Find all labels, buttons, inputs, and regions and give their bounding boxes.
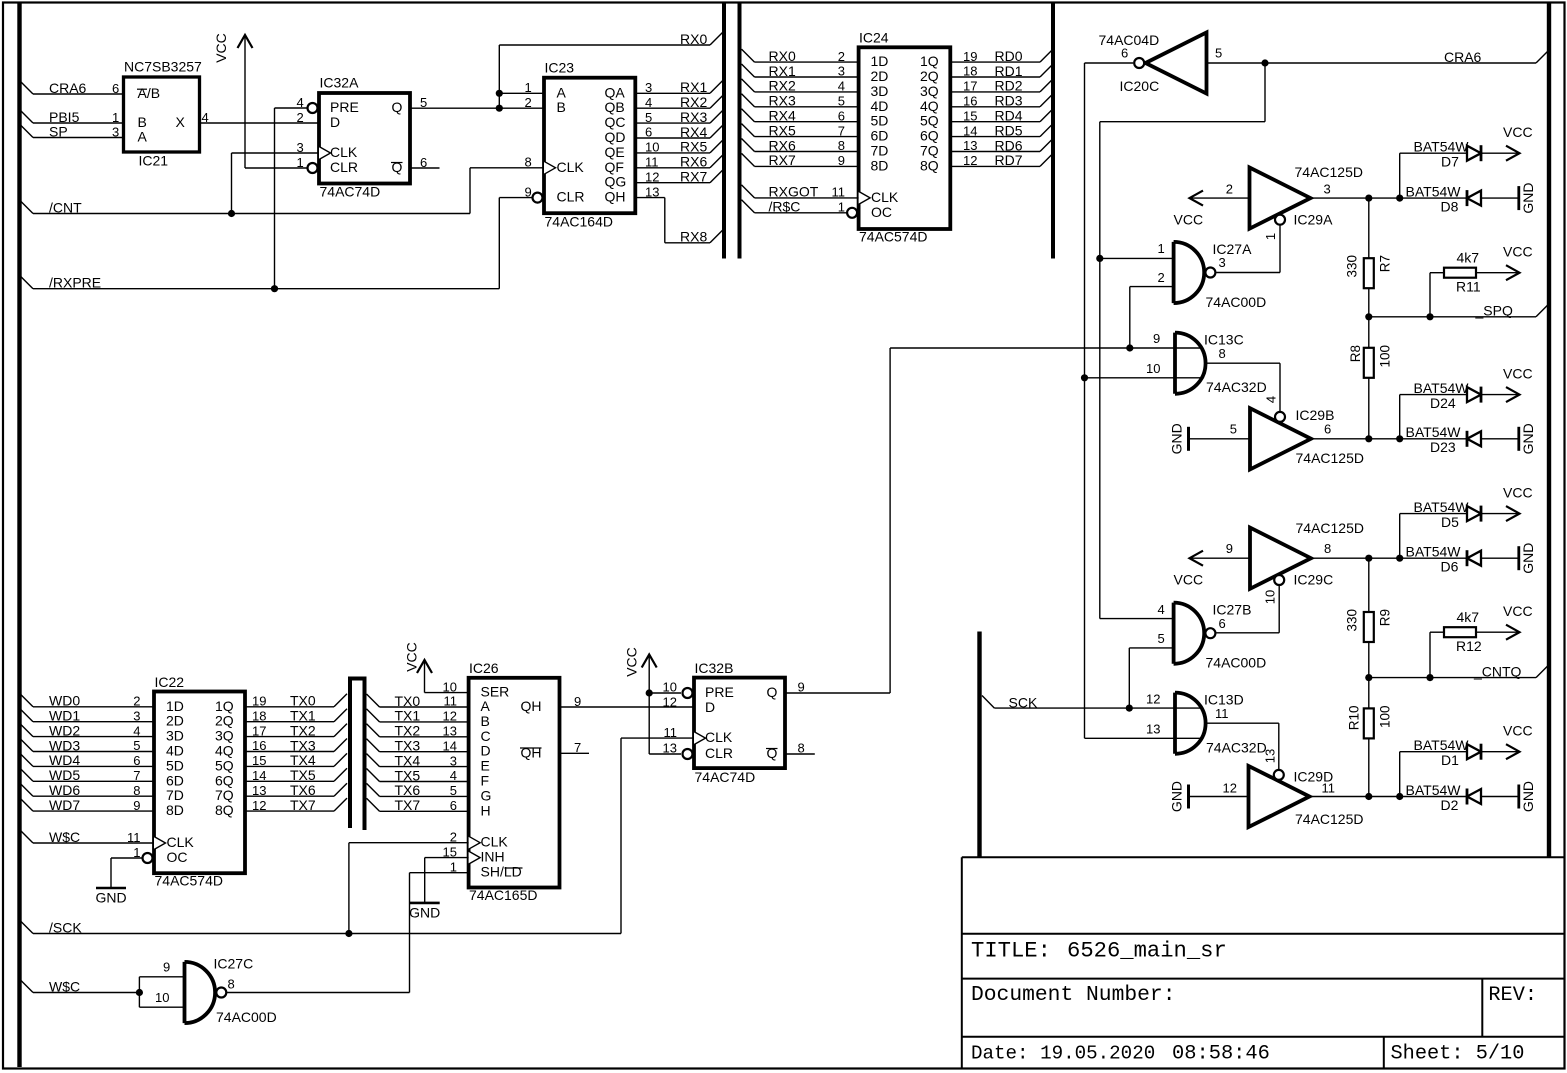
wire IC26.INH to GND: [425, 857, 469, 859]
wire D5 to VCC: [1481, 513, 1519, 515]
svg-text:CRA6: CRA6: [49, 80, 87, 96]
svg-text:_CNTQ: _CNTQ: [1473, 663, 1522, 679]
wire TX6 to IC26: [367, 783, 380, 796]
svg-text:RX1: RX1: [680, 79, 707, 95]
junction IC29D out R10: [1365, 793, 1372, 800]
IC29A buffer 74AC125D: [1250, 168, 1311, 229]
net WD1 stub: [20, 709, 33, 722]
resistor R12 4k7: [1444, 627, 1476, 637]
wire W$C to IC27C.10: [139, 1006, 184, 1008]
svg-text:H: H: [481, 802, 491, 818]
svg-text:RX8: RX8: [680, 229, 707, 245]
svg-text:1Q: 1Q: [920, 53, 939, 69]
wire IC27B.5: [1129, 647, 1173, 649]
wire VCC to IC32B.CLR: [649, 753, 681, 755]
wire RX4: [635, 137, 710, 139]
svg-text:74AC04D: 74AC04D: [1099, 32, 1160, 48]
svg-text:CLK: CLK: [705, 729, 733, 745]
svg-text:A: A: [481, 698, 491, 714]
wire TX6 to bus: [245, 795, 334, 797]
svg-text:RX4: RX4: [680, 124, 707, 140]
svg-text:08:58:46: 08:58:46: [1172, 1043, 1270, 1066]
svg-text:74AC574D: 74AC574D: [859, 229, 928, 245]
svg-text:/SCK: /SCK: [49, 919, 82, 935]
wire IC20C.6 net: [1085, 62, 1134, 64]
wire VCC to IC32B.PRE: [649, 692, 681, 694]
diode D2 BAT54W: [1467, 789, 1481, 804]
svg-text:CLR: CLR: [557, 189, 585, 205]
IC29B enable bubble: [1275, 412, 1285, 422]
svg-text:8: 8: [228, 976, 235, 991]
power VCC at IC32B: [648, 656, 650, 755]
IC23 CLR bubble: [533, 193, 543, 203]
svg-text:100: 100: [1378, 706, 1393, 729]
svg-text:8: 8: [1219, 346, 1226, 361]
wire D1 riser: [1399, 752, 1401, 797]
wire TX1 to IC26: [367, 709, 380, 722]
net SP stub: [20, 125, 33, 138]
svg-text:W$C: W$C: [49, 978, 80, 994]
svg-text:QH: QH: [605, 189, 626, 205]
ground IC29D.12: [1187, 785, 1190, 809]
junction IC23.A: [496, 90, 503, 97]
svg-text:74AC164D: 74AC164D: [545, 214, 614, 230]
svg-text:RD0: RD0: [995, 48, 1023, 64]
svg-text:12: 12: [1146, 691, 1160, 706]
svg-text:BAT54W: BAT54W: [1406, 544, 1462, 560]
title block frame: [962, 856, 1564, 858]
wire RX6 to IC24: [742, 139, 755, 152]
svg-text:RX1: RX1: [769, 63, 796, 79]
svg-text:QA: QA: [605, 84, 626, 100]
svg-text:RX2: RX2: [680, 94, 707, 110]
svg-text:Sheet: 5/10: Sheet: 5/10: [1391, 1043, 1525, 1066]
wire IC26.SHLD to IC27C: [410, 872, 469, 874]
svg-text:RX6: RX6: [769, 137, 796, 153]
svg-text:74AC00D: 74AC00D: [1206, 654, 1267, 670]
svg-text:TITLE:: TITLE:: [971, 939, 1051, 964]
svg-text:C: C: [481, 728, 491, 744]
wire IC27A.2: [1130, 286, 1174, 288]
svg-text:CLR: CLR: [705, 745, 733, 761]
IC29D enable bubble: [1274, 770, 1284, 780]
net /CNT stub: [20, 201, 33, 214]
wire IC26.QH to IC32B.D: [560, 706, 695, 708]
net WD0 stub: [20, 694, 33, 707]
power VCC at IC26.SER: [424, 661, 426, 693]
svg-text:WD1: WD1: [49, 708, 80, 724]
wire TX3 to IC26: [367, 739, 380, 752]
diode D24 BAT54W: [1467, 387, 1481, 402]
svg-text:VCC: VCC: [1174, 211, 1204, 227]
svg-text:QE: QE: [605, 144, 625, 160]
wire TX7 to IC26: [367, 798, 380, 811]
wire IC32A.Q to node: [410, 107, 499, 109]
svg-text:3Q: 3Q: [215, 728, 234, 744]
wire RX1: [635, 92, 710, 94]
wire IC13C.8 out: [1207, 362, 1281, 364]
svg-text:TX0: TX0: [395, 693, 421, 709]
wire VCC to IC32A.CLR: [245, 167, 307, 169]
svg-text:Q: Q: [392, 159, 403, 175]
svg-text:100: 100: [1378, 345, 1393, 368]
svg-text:RX3: RX3: [680, 109, 707, 125]
wire IC32B.Qbar stub: [785, 753, 815, 755]
svg-text:2D: 2D: [166, 713, 184, 729]
wire R9 to _CNTQ: [1368, 642, 1370, 678]
svg-text:D2: D2: [1441, 797, 1459, 813]
wire R8 to IC29B out: [1368, 378, 1370, 439]
wire RX7: [635, 182, 710, 184]
svg-text:6Q: 6Q: [215, 772, 234, 788]
svg-text:7Q: 7Q: [920, 143, 939, 159]
svg-text:TX6: TX6: [395, 782, 421, 798]
net WD6 stub: [20, 783, 33, 796]
junction _SPQ R7: [1365, 313, 1372, 320]
svg-text:/CNT: /CNT: [49, 199, 82, 215]
svg-text:OC: OC: [167, 849, 188, 865]
svg-text:VCC: VCC: [404, 642, 420, 672]
resistor R8 100: [1364, 348, 1374, 378]
wire IC29A.2 VCC: [1190, 197, 1250, 199]
IC32A box: [319, 93, 410, 184]
svg-text:D5: D5: [1441, 514, 1459, 530]
svg-text:SH/LD: SH/LD: [481, 864, 522, 880]
IC32B PRE bubble: [683, 688, 693, 698]
svg-text:7Q: 7Q: [215, 787, 234, 803]
svg-text:3Q: 3Q: [920, 83, 939, 99]
svg-text:CLK: CLK: [330, 144, 358, 160]
svg-text:74AC125D: 74AC125D: [1295, 164, 1364, 180]
svg-text:Q: Q: [767, 684, 778, 700]
wire TX0 to bus: [245, 706, 334, 708]
wire IC32A.Qbar stub: [410, 167, 440, 169]
svg-text:9: 9: [1153, 331, 1160, 346]
svg-text:/RXPRE: /RXPRE: [49, 275, 101, 291]
wire RX7 to IC24: [742, 153, 755, 166]
net W$C stub bottom: [20, 980, 33, 993]
wire IC32A.PRE to /RXPRE: [275, 107, 308, 109]
IC29A enable bubble: [1275, 215, 1285, 225]
svg-text:11: 11: [1322, 780, 1336, 795]
svg-text:4Q: 4Q: [215, 743, 234, 759]
junction IC29B out D23: [1396, 435, 1403, 442]
svg-text:TX7: TX7: [290, 797, 316, 813]
svg-text:IC24: IC24: [859, 30, 889, 46]
wire IC32B.Q to IC13C.9: [785, 692, 890, 694]
IC32B CLR bubble: [683, 749, 693, 759]
wire R12 to VCC: [1476, 631, 1519, 633]
svg-text:8D: 8D: [871, 157, 889, 173]
svg-text:VCC: VCC: [1503, 244, 1533, 260]
IC23 box: [544, 78, 635, 214]
wire pin5 net down: [1264, 63, 1266, 122]
wire IC29C.9 VCC: [1190, 557, 1251, 559]
junction IC27B.5 tap: [1126, 705, 1133, 712]
svg-text:BAT54W: BAT54W: [1414, 380, 1470, 396]
svg-text:WD6: WD6: [49, 782, 80, 798]
net CRA6 stub: [20, 81, 33, 94]
wire RX5 to IC24: [742, 124, 755, 137]
svg-text:4k7: 4k7: [1457, 250, 1480, 266]
wire IC13C.10: [1085, 377, 1201, 379]
svg-text:E: E: [481, 758, 490, 774]
svg-text:R10: R10: [1347, 706, 1362, 731]
junction /SCK-IC26.CLK: [345, 930, 352, 937]
svg-text:NC7SB3257: NC7SB3257: [124, 58, 202, 74]
junction IC29A out D8: [1396, 195, 1403, 202]
wire RD2: [950, 91, 1040, 93]
IC27B gate: [1174, 603, 1205, 664]
svg-text:VCC: VCC: [1503, 124, 1533, 140]
junction IC29C out D6: [1396, 555, 1403, 562]
bus TX pair top cap: [348, 677, 367, 681]
svg-text:CRA6: CRA6: [1444, 49, 1482, 65]
svg-text:GND: GND: [1520, 183, 1536, 214]
ground D23: [1517, 427, 1520, 451]
wire TX2 to bus: [245, 736, 334, 738]
junction _CNTQ R12: [1426, 674, 1433, 681]
svg-text:IC21: IC21: [139, 153, 169, 169]
svg-text:74AC74D: 74AC74D: [320, 184, 381, 200]
wire RX4 to IC24: [742, 109, 755, 122]
svg-text:RX6: RX6: [680, 154, 707, 170]
bus TX pair right: [363, 677, 367, 830]
IC27A gate: [1174, 242, 1205, 303]
wire D1 to VCC: [1481, 751, 1519, 753]
ground IC29B.5: [1187, 427, 1190, 451]
svg-text:74AC32D: 74AC32D: [1206, 740, 1267, 756]
wire TX3 to bus: [245, 751, 334, 753]
svg-text:RD3: RD3: [995, 93, 1023, 109]
svg-text:RD1: RD1: [995, 63, 1023, 79]
wire D6 to GND: [1481, 557, 1518, 559]
wire TX4 to bus: [245, 765, 334, 767]
IC32A CLR bubble: [308, 163, 318, 173]
net WD4 stub: [20, 753, 33, 766]
wire RX0 to IC24: [742, 49, 755, 62]
svg-text:WD7: WD7: [49, 797, 80, 813]
power VCC top-left: [244, 36, 246, 168]
wire RX1 to IC24: [742, 64, 755, 77]
wire RX5: [635, 152, 710, 154]
IC26 INH triangle: [469, 851, 481, 864]
junction IC29B out R8: [1365, 435, 1372, 442]
svg-text:RX7: RX7: [680, 169, 707, 185]
wire RX0: [499, 44, 710, 46]
bus SCK: [977, 632, 981, 858]
IC20C bubble: [1134, 58, 1144, 68]
diode D7 BAT54W: [1467, 146, 1481, 161]
net _SPQ wire: [1369, 316, 1536, 318]
svg-text:TX0: TX0: [290, 693, 316, 709]
net /RXPRE stub: [20, 276, 33, 289]
svg-text:74AC125D: 74AC125D: [1295, 811, 1364, 827]
svg-text:PRE: PRE: [330, 99, 359, 115]
svg-text:_SPQ: _SPQ: [1475, 303, 1513, 319]
wire RD6: [950, 151, 1040, 153]
svg-text:6526_main_sr: 6526_main_sr: [1067, 939, 1227, 964]
bus left: [17, 3, 21, 1067]
svg-text:3: 3: [1219, 255, 1226, 270]
svg-text:VCC: VCC: [1503, 365, 1533, 381]
svg-text:BAT54W: BAT54W: [1414, 499, 1470, 515]
IC23 CLK triangle: [544, 161, 556, 174]
wire IC29C.8 out: [1311, 557, 1467, 559]
svg-text:IC29A: IC29A: [1294, 211, 1334, 227]
wire R12 left: [1430, 631, 1444, 633]
svg-text:RX3: RX3: [769, 93, 796, 109]
IC32A CLK triangle: [319, 147, 331, 160]
svg-text:8Q: 8Q: [215, 802, 234, 818]
svg-text:4Q: 4Q: [920, 98, 939, 114]
bus TX pair left: [348, 677, 352, 828]
IC22 OC bubble: [143, 853, 153, 863]
junction /RXPRE-IC32A.PRE: [271, 285, 278, 292]
svg-text:RX5: RX5: [680, 139, 707, 155]
wire IC27A.1: [1100, 257, 1174, 259]
IC24 CLK triangle: [859, 191, 871, 204]
svg-text:4D: 4D: [166, 743, 184, 759]
svg-text:VCC: VCC: [1503, 723, 1533, 739]
svg-text:74AC00D: 74AC00D: [1206, 294, 1267, 310]
svg-text:3: 3: [1324, 181, 1331, 196]
svg-text:WD0: WD0: [49, 693, 80, 709]
wire R11 to VCC: [1476, 272, 1519, 274]
wire IC29B.5 GND: [1189, 438, 1251, 440]
svg-text:5Q: 5Q: [215, 757, 234, 773]
svg-text:IC13D: IC13D: [1204, 691, 1244, 707]
wire TX5 to bus: [245, 780, 334, 782]
svg-text:RX4: RX4: [769, 108, 796, 124]
wire TX2 to IC26: [367, 724, 380, 737]
svg-text:F: F: [481, 773, 490, 789]
wire TX5 to IC26: [367, 769, 380, 782]
svg-text:7D: 7D: [871, 143, 889, 159]
svg-text:QH: QH: [521, 698, 542, 714]
wire R7 to _SPQ: [1368, 288, 1370, 317]
wire IC29C out to R9: [1368, 558, 1370, 612]
IC24 OC bubble: [847, 208, 857, 218]
wire IC29C.10 enable: [1278, 586, 1280, 633]
svg-text:330: 330: [1345, 609, 1360, 632]
svg-text:6D: 6D: [166, 772, 184, 788]
svg-text:Date: 19.05.2020: Date: 19.05.2020: [971, 1043, 1155, 1065]
svg-text:1: 1: [297, 155, 304, 170]
svg-text:IC22: IC22: [155, 674, 185, 690]
net WD7 stub: [20, 798, 33, 811]
svg-text:R8: R8: [1348, 345, 1363, 362]
svg-text:1: 1: [1158, 241, 1165, 256]
svg-text:13: 13: [1262, 749, 1277, 763]
net WD2 stub: [20, 724, 33, 737]
wire IC29D.11 out: [1310, 796, 1468, 798]
svg-text:12: 12: [1223, 780, 1237, 795]
svg-text:GND: GND: [409, 904, 440, 920]
svg-text:74AC32D: 74AC32D: [1206, 379, 1267, 395]
wire IC23.A: [499, 92, 544, 94]
diode D5 BAT54W: [1467, 506, 1481, 521]
svg-text:10: 10: [155, 990, 169, 1005]
wire RX6: [635, 167, 710, 169]
wire D24 to VCC: [1481, 394, 1519, 396]
svg-text:330: 330: [1345, 255, 1360, 278]
svg-text:1D: 1D: [166, 698, 184, 714]
svg-text:WD2: WD2: [49, 722, 80, 738]
wire RD1: [950, 76, 1040, 78]
svg-text:IC27C: IC27C: [214, 955, 254, 971]
svg-text:B: B: [557, 99, 566, 115]
IC32A PRE bubble: [308, 103, 318, 113]
svg-text:11: 11: [1215, 706, 1229, 721]
wire IC29A.3 out: [1311, 197, 1468, 199]
svg-text:RX0: RX0: [769, 48, 796, 64]
svg-text:4: 4: [1263, 396, 1278, 403]
wire IC26.QHbar stub: [560, 752, 590, 754]
svg-text:TX4: TX4: [395, 752, 421, 768]
svg-text:D: D: [330, 114, 340, 130]
svg-text:10: 10: [1262, 590, 1277, 604]
svg-text:VCC: VCC: [1503, 484, 1533, 500]
svg-text:5: 5: [1215, 45, 1222, 60]
svg-text:CLK: CLK: [871, 189, 899, 205]
net SCK stub: [982, 696, 994, 709]
svg-text:TX2: TX2: [395, 723, 421, 739]
svg-text:TX1: TX1: [290, 708, 316, 724]
ground D6: [1517, 546, 1520, 570]
wire D24 riser: [1399, 395, 1401, 439]
net W$C stub top: [20, 830, 33, 843]
svg-text:74AC125D: 74AC125D: [1296, 450, 1365, 466]
junction IC13C.10 tap: [1081, 374, 1088, 381]
IC22 box: [154, 692, 245, 874]
svg-text:QC: QC: [605, 114, 626, 130]
svg-text:2: 2: [1226, 181, 1233, 196]
wire IC32B.CLK to /SCK: [621, 737, 694, 739]
wire IC13D.11 out: [1207, 722, 1279, 724]
wire RD3: [950, 106, 1040, 108]
IC32B box: [694, 678, 785, 769]
svg-text:GND: GND: [1169, 423, 1185, 454]
svg-text:6Q: 6Q: [920, 128, 939, 144]
wire RX0 riser: [498, 45, 500, 108]
svg-text:2: 2: [1158, 270, 1165, 285]
wire SCK to IC13D.12: [994, 707, 1200, 709]
svg-text:VCC: VCC: [1174, 571, 1204, 587]
bus right RD: [1051, 3, 1055, 259]
wire _CNTQ to R10: [1368, 678, 1370, 709]
svg-text:4: 4: [1158, 602, 1165, 617]
junction IC27A.2 tap: [1126, 344, 1133, 351]
svg-text:R7: R7: [1378, 255, 1393, 272]
wire W$C to IC27C.9: [138, 977, 140, 1007]
wire IC13D.13: [1085, 737, 1201, 739]
svg-text:B: B: [481, 713, 490, 729]
svg-text:WD3: WD3: [49, 737, 80, 753]
svg-text:R11: R11: [1456, 278, 1481, 294]
net /SCK stub: [20, 921, 33, 934]
junction _SPQ R11: [1426, 313, 1433, 320]
svg-text:74AC574D: 74AC574D: [155, 873, 224, 889]
svg-text:/R$C: /R$C: [769, 199, 801, 215]
svg-text:4k7: 4k7: [1457, 609, 1480, 625]
svg-text:RD2: RD2: [995, 78, 1023, 94]
svg-text:A: A: [557, 84, 567, 100]
svg-text:TX5: TX5: [395, 767, 421, 783]
svg-text:SP: SP: [49, 123, 68, 139]
IC20C inverter 74AC04D: [1146, 32, 1207, 93]
svg-text:QG: QG: [605, 174, 627, 190]
